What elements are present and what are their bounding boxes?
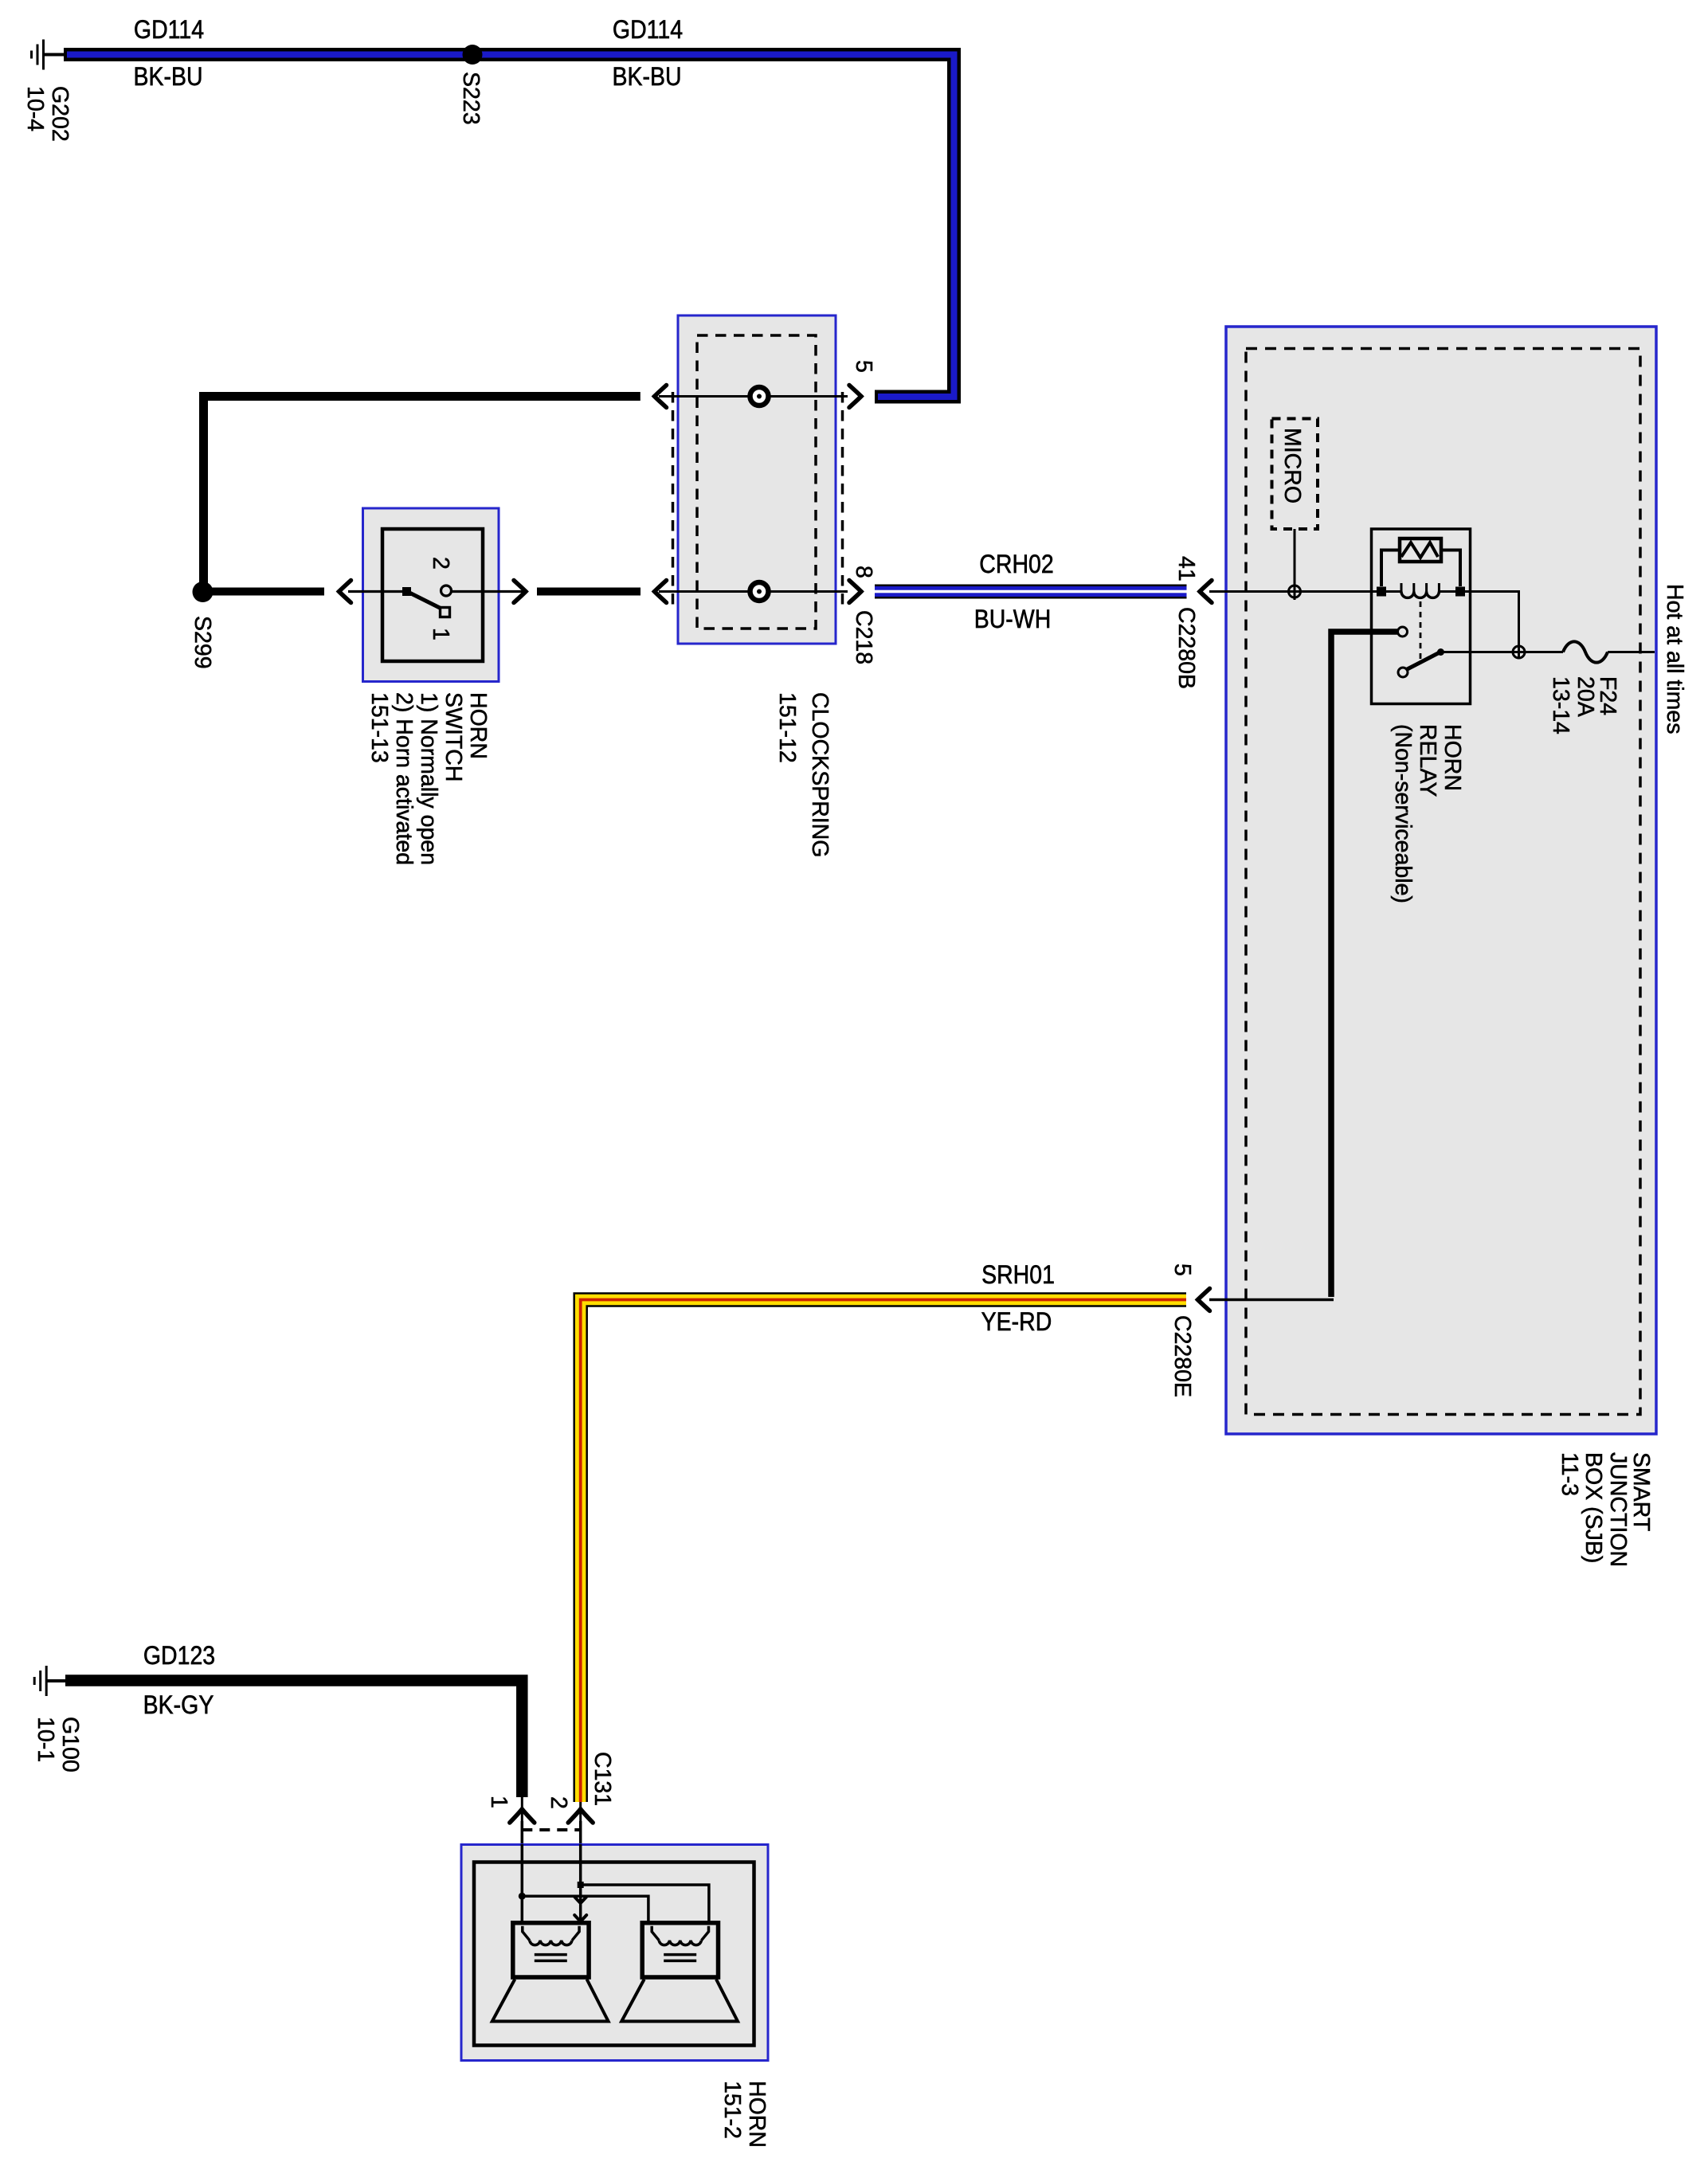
horn switch box bbox=[363, 508, 499, 682]
relay movable contact bbox=[1398, 668, 1408, 677]
wire relay control to SJB pin 5 (C2280E) bbox=[1331, 632, 1397, 1297]
svg-text:C131: C131 bbox=[590, 1752, 615, 1806]
svg-text:8: 8 bbox=[851, 566, 876, 578]
svg-text:1: 1 bbox=[428, 628, 453, 640]
relay resistor (parallel) bbox=[1400, 539, 1441, 562]
wire relay coil right to fuse junction bbox=[1439, 592, 1518, 659]
MICRO dashed box bbox=[1272, 419, 1318, 530]
connector arrow clockspring pin 8 left bbox=[655, 581, 667, 603]
wire pin 2 branch to horn 2 right bbox=[581, 1885, 709, 1924]
clockspring box bbox=[678, 315, 836, 644]
svg-text:HORN: HORN bbox=[744, 2081, 770, 2148]
wire CRH02 BU-WH (clockspring pin 8 to SJB pin 41) bbox=[875, 585, 1187, 599]
horn 1 symbol bbox=[492, 1923, 609, 2022]
horn switch lever bbox=[408, 592, 443, 609]
svg-text:C2280E: C2280E bbox=[1169, 1315, 1195, 1397]
clockspring inner dashed outline bbox=[697, 335, 816, 629]
svg-text:CLOCKSPRING: CLOCKSPRING bbox=[807, 692, 832, 857]
svg-text:20A: 20A bbox=[1573, 676, 1598, 717]
ground G100 bbox=[34, 1666, 67, 1696]
relay control contact bbox=[1398, 627, 1408, 637]
svg-text:151-12: 151-12 bbox=[774, 692, 800, 763]
splice circle (MICRO to pin 41 wire) bbox=[1289, 586, 1301, 597]
svg-text:2: 2 bbox=[546, 1796, 571, 1809]
junction dot pin 2 branch bbox=[578, 1882, 584, 1888]
svg-text:1: 1 bbox=[486, 1796, 511, 1808]
svg-text:13-14: 13-14 bbox=[1548, 676, 1573, 734]
svg-text:YE-RD: YE-RD bbox=[981, 1306, 1052, 1336]
wire GD114 BK-BU (ground G202 to clockspring pin 5) bbox=[64, 55, 954, 398]
flow arrow on pin 2 wire bbox=[574, 1897, 586, 1903]
svg-text:JUNCTION: JUNCTION bbox=[1605, 1452, 1631, 1567]
wire GD123 BK-GY (ground G100 to horn pin 1) bbox=[65, 1681, 522, 1798]
svg-text:BU-WH: BU-WH bbox=[974, 604, 1052, 633]
svg-text:S223: S223 bbox=[458, 72, 484, 125]
svg-text:1) Normally open: 1) Normally open bbox=[416, 692, 441, 865]
splice S223 bbox=[463, 45, 483, 65]
wire relay contact through fuse junction to fuse bbox=[1441, 651, 1564, 653]
svg-text:MICRO: MICRO bbox=[1279, 428, 1305, 503]
svg-text:G202: G202 bbox=[47, 86, 72, 142]
svg-text:CRH02: CRH02 bbox=[979, 549, 1053, 578]
svg-text:11-3: 11-3 bbox=[1557, 1452, 1582, 1496]
wire SRH01 YE-RD (SJB pin 5 to horn pin 2) bbox=[581, 1300, 1186, 1803]
wire pin 1 to horn box bbox=[521, 1821, 524, 1845]
svg-text:GD114: GD114 bbox=[134, 14, 204, 44]
svg-text:BK-BU: BK-BU bbox=[612, 61, 681, 91]
svg-text:10-1: 10-1 bbox=[33, 1717, 58, 1762]
connector arrow SJB pin 41 bbox=[1200, 581, 1212, 603]
relay actuation dashed link bbox=[1420, 601, 1422, 662]
junction dot pin 1 branch bbox=[519, 1893, 526, 1900]
svg-text:GD114: GD114 bbox=[613, 14, 683, 44]
wire pin 2 into horn 1 bbox=[579, 1844, 582, 1924]
wire SJB pin 41 to horn relay coil bbox=[1209, 590, 1401, 593]
svg-text:(Non-serviceable): (Non-serviceable) bbox=[1390, 724, 1416, 903]
horn inner outline bbox=[474, 1863, 754, 2046]
wire horn switch to clockspring pin 8 bbox=[537, 588, 640, 596]
svg-text:BOX (SJB): BOX (SJB) bbox=[1581, 1452, 1606, 1563]
connector C218 dashed line left bbox=[672, 392, 675, 606]
connector arrow out of horn switch bbox=[514, 581, 526, 603]
horn switch lever pivot bbox=[402, 587, 411, 596]
clockspring coil ring (pin 8) bbox=[750, 582, 769, 601]
svg-text:41: 41 bbox=[1173, 556, 1199, 582]
splice circle (relay to fuse) bbox=[1513, 646, 1525, 658]
ground G202 bbox=[32, 40, 65, 70]
svg-text:BK-GY: BK-GY bbox=[143, 1690, 214, 1719]
connector arrow horn pin 1 bbox=[510, 1809, 535, 1823]
connector arrow clockspring pin 8 right bbox=[849, 581, 861, 603]
relay coil terminal left bbox=[1377, 587, 1386, 597]
svg-text:10-4: 10-4 bbox=[22, 86, 48, 131]
svg-text:BK-BU: BK-BU bbox=[133, 61, 202, 91]
svg-text:G100: G100 bbox=[57, 1717, 83, 1772]
clockspring pin 5 internal wire bbox=[659, 395, 848, 398]
horn pin 2 lead bbox=[579, 1802, 582, 1845]
svg-text:2) Horn activated: 2) Horn activated bbox=[391, 692, 417, 865]
svg-text:Hot at all times: Hot at all times bbox=[1662, 584, 1687, 734]
horn pin 1 lead bbox=[521, 1797, 523, 1845]
connector arrow SJB pin 5 C2280E bbox=[1198, 1289, 1210, 1311]
wire pin 1 into horn 1 bbox=[521, 1844, 524, 1924]
wire into horn switch lever bbox=[348, 590, 406, 593]
svg-text:151-13: 151-13 bbox=[366, 692, 392, 763]
svg-text:C218: C218 bbox=[851, 610, 876, 664]
SJB inner dashed outline bbox=[1246, 349, 1640, 1415]
connector arrow clockspring pin 5 left bbox=[655, 386, 667, 408]
connector arrow into horn switch bbox=[339, 581, 351, 603]
connector arrow clockspring pin 5 right bbox=[849, 386, 861, 408]
clockspring coil ring (pin 5) bbox=[750, 387, 769, 405]
svg-text:5: 5 bbox=[851, 360, 876, 373]
horn switch contact 1 bbox=[441, 608, 450, 617]
wire S299 to horn switch bbox=[212, 588, 324, 596]
fuse F24 bbox=[1563, 641, 1608, 662]
horn relay box bbox=[1372, 529, 1471, 704]
svg-text:RELAY: RELAY bbox=[1415, 724, 1440, 797]
wire MICRO to pin 41 net bbox=[1294, 529, 1296, 600]
svg-text:SWITCH: SWITCH bbox=[441, 692, 466, 781]
svg-text:5: 5 bbox=[1169, 1263, 1195, 1276]
svg-text:GD123: GD123 bbox=[143, 1640, 215, 1670]
svg-text:SMART: SMART bbox=[1628, 1452, 1654, 1531]
relay coil terminal right bbox=[1455, 587, 1465, 597]
splice S299 bbox=[193, 582, 213, 602]
svg-text:2: 2 bbox=[428, 557, 453, 570]
svg-text:HORN: HORN bbox=[1440, 724, 1465, 791]
clockspring pin 8 internal wire bbox=[659, 590, 848, 593]
svg-text:HORN: HORN bbox=[465, 692, 491, 759]
svg-text:S299: S299 bbox=[190, 616, 215, 669]
resistor connection wires bbox=[1381, 550, 1400, 587]
flow arrow at horn 1 terminal bbox=[574, 1915, 586, 1921]
relay coil bbox=[1401, 592, 1439, 598]
wire fuse to hot at all times bbox=[1608, 651, 1655, 653]
wire pin 1 branch to horn 2 left bbox=[522, 1896, 648, 1924]
wire pin 2 to horn box bbox=[579, 1821, 582, 1845]
horn switch contact 2 bbox=[441, 586, 452, 596]
wire horn switch pin 2 to connector bbox=[451, 590, 526, 593]
svg-text:C2280B: C2280B bbox=[1173, 607, 1199, 689]
connector C131 dashed link bbox=[522, 1828, 581, 1831]
svg-text:SRH01: SRH01 bbox=[981, 1259, 1055, 1289]
svg-text:151-2: 151-2 bbox=[719, 2081, 745, 2139]
horn 2 symbol bbox=[621, 1923, 738, 2022]
horn box bbox=[461, 1845, 768, 2061]
smart junction box (SJB) bbox=[1226, 327, 1656, 1434]
connector arrow horn pin 2 bbox=[568, 1809, 593, 1823]
horn switch inner outline bbox=[382, 529, 483, 661]
wire clockspring pin 5 to splice S299 bbox=[204, 397, 640, 589]
connector C218 dashed line right bbox=[841, 392, 844, 606]
